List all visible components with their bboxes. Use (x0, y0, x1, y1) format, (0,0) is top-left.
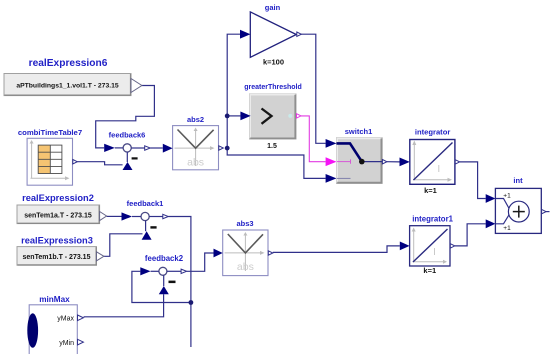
int output port (542, 209, 547, 213)
minMax yMin output port (78, 339, 84, 345)
greaterThreshold output port magenta (297, 114, 302, 118)
gain triangle body (250, 12, 296, 57)
svg-text:senTem1b.T - 273.15: senTem1b.T - 273.15 (23, 254, 91, 261)
wire minMax yMax to feedback2 minus (84, 294, 164, 317)
feedback1 input arrow (122, 212, 142, 220)
svg-text:yMax: yMax (57, 315, 74, 322)
feedback1 minus input arrow (142, 221, 152, 240)
feedback6 output port (131, 146, 150, 150)
feedback1 output port (149, 214, 168, 218)
wire gain out to switch1 input1 (301, 34, 326, 143)
feedback2 input arrow (140, 267, 159, 275)
feedback1 summing circle (141, 212, 149, 220)
feedback1 minus sign (150, 226, 156, 228)
svg-text:gain: gain (265, 3, 281, 12)
wire greaterThreshold out to switch1 input2 (magenta) (301, 116, 326, 162)
integrator1 input arrow (400, 242, 410, 251)
svg-text:abs3: abs3 (236, 219, 253, 228)
svg-text:senTem1a.T - 273.15: senTem1a.T - 273.15 (24, 212, 92, 219)
svg-text:yMin: yMin (59, 340, 74, 347)
switch1 input arrow 2 magenta (326, 157, 337, 166)
svg-text:1.5: 1.5 (267, 143, 277, 150)
gain output port (297, 32, 302, 36)
switch1 input arrow 3 (326, 174, 337, 183)
svg-text:k=100: k=100 (263, 58, 284, 67)
integrator input arrow (400, 158, 410, 167)
feedback6 summing circle (123, 144, 131, 152)
svg-text:+1: +1 (503, 192, 511, 199)
wire abs3 to integrator1 (273, 246, 400, 253)
int input arrow 2 (486, 219, 496, 228)
abs2 input arrow (163, 144, 173, 153)
svg-text:greaterThreshold: greaterThreshold (244, 84, 302, 91)
switch1 input arrow 1 (326, 139, 337, 148)
abs3 body (223, 230, 268, 276)
svg-text:realExpression3: realExpression3 (21, 236, 93, 246)
svg-text:aPTbuildings1_1.vol1.T - 273.1: aPTbuildings1_1.vol1.T - 273.15 (16, 83, 119, 90)
wire int out (546, 211, 550, 213)
combiTimeTable7 output port (73, 160, 78, 164)
svg-text:integrator: integrator (415, 128, 450, 137)
wire realExpression6 to feedback6 (96, 86, 155, 148)
feedback6 minus input arrow (123, 152, 133, 170)
minMax body (27, 305, 77, 354)
wire feedback2 to abs3 (187, 253, 214, 271)
svg-text:integrator1: integrator1 (412, 214, 453, 223)
switch1 output port (382, 160, 387, 164)
wire integrator1 to int input2 (455, 224, 486, 246)
wire combiTimeTable7 to feedback6 minus (77, 162, 122, 165)
abs2 output port (219, 146, 224, 150)
wire junction to feedback2 input (132, 271, 191, 302)
svg-text:realExpression6: realExpression6 (29, 58, 108, 69)
junction node abs2 out (225, 146, 230, 151)
realExpression6 body (4, 74, 131, 96)
svg-text:feedback6: feedback6 (109, 131, 146, 140)
integrator1 output port (450, 244, 455, 248)
feedback2 output port (167, 269, 187, 273)
wire feedback6 to abs2 (150, 147, 163, 149)
wire realExpression3 to feedback1 minus (104, 234, 143, 256)
feedback2 minus sign (169, 281, 176, 284)
feedback2 minus input arrow (159, 275, 169, 294)
junction node greaterThreshold branch (225, 114, 230, 119)
realExpression3 body (17, 247, 97, 266)
greaterThreshold input arrow (240, 112, 250, 121)
wire junction down dangling (190, 303, 192, 348)
wire abs2 node to greaterThreshold (227, 115, 240, 117)
svg-text:feedback1: feedback1 (127, 199, 164, 208)
svg-text:realExpression2: realExpression2 (22, 193, 94, 203)
wire abs2 out up to gain (227, 34, 240, 148)
svg-text:int: int (513, 176, 523, 185)
svg-text:combiTimeTable7: combiTimeTable7 (18, 128, 82, 137)
wire abs2 node to switch1 input3 (227, 148, 325, 178)
combiTimeTable7 body (27, 138, 72, 185)
svg-text:abs: abs (237, 261, 254, 273)
minMax yMax output port (78, 315, 84, 321)
junction node feedback1 loop (189, 300, 194, 305)
realExpression3 output notch (97, 252, 104, 261)
realExpression6 output notch (131, 79, 142, 93)
switch1 body (337, 138, 383, 184)
svg-text:switch1: switch1 (345, 127, 373, 136)
int adder body (495, 188, 541, 233)
wire feedback1 out down to junction (168, 217, 191, 303)
greaterThreshold body (250, 94, 297, 139)
realExpression2 body (17, 205, 100, 224)
feedback6 input arrow (104, 144, 123, 152)
wire realExpression2 to feedback1 (107, 215, 122, 217)
wire integrator to int input1 (460, 162, 486, 199)
svg-text:abs2: abs2 (187, 115, 204, 124)
abs2 body (173, 126, 219, 170)
integrator1 body (410, 226, 450, 266)
feedback2 summing circle (159, 267, 167, 275)
svg-text:+1: +1 (503, 225, 511, 232)
integrator body (410, 140, 455, 185)
realExpression2 output notch (100, 212, 107, 221)
gain input arrow (240, 30, 250, 39)
svg-text:k=1: k=1 (423, 266, 436, 275)
svg-text:abs: abs (187, 157, 204, 169)
abs3 input arrow (214, 249, 223, 258)
abs3 output port (268, 251, 273, 255)
svg-text:feedback2: feedback2 (145, 254, 184, 263)
svg-text:k=1: k=1 (424, 186, 437, 195)
int input arrow 1 (486, 194, 496, 203)
feedback6 minus sign (132, 157, 138, 159)
svg-text:minMax: minMax (39, 295, 70, 304)
integrator output port (455, 160, 460, 164)
wire switch1 to integrator (387, 161, 400, 163)
